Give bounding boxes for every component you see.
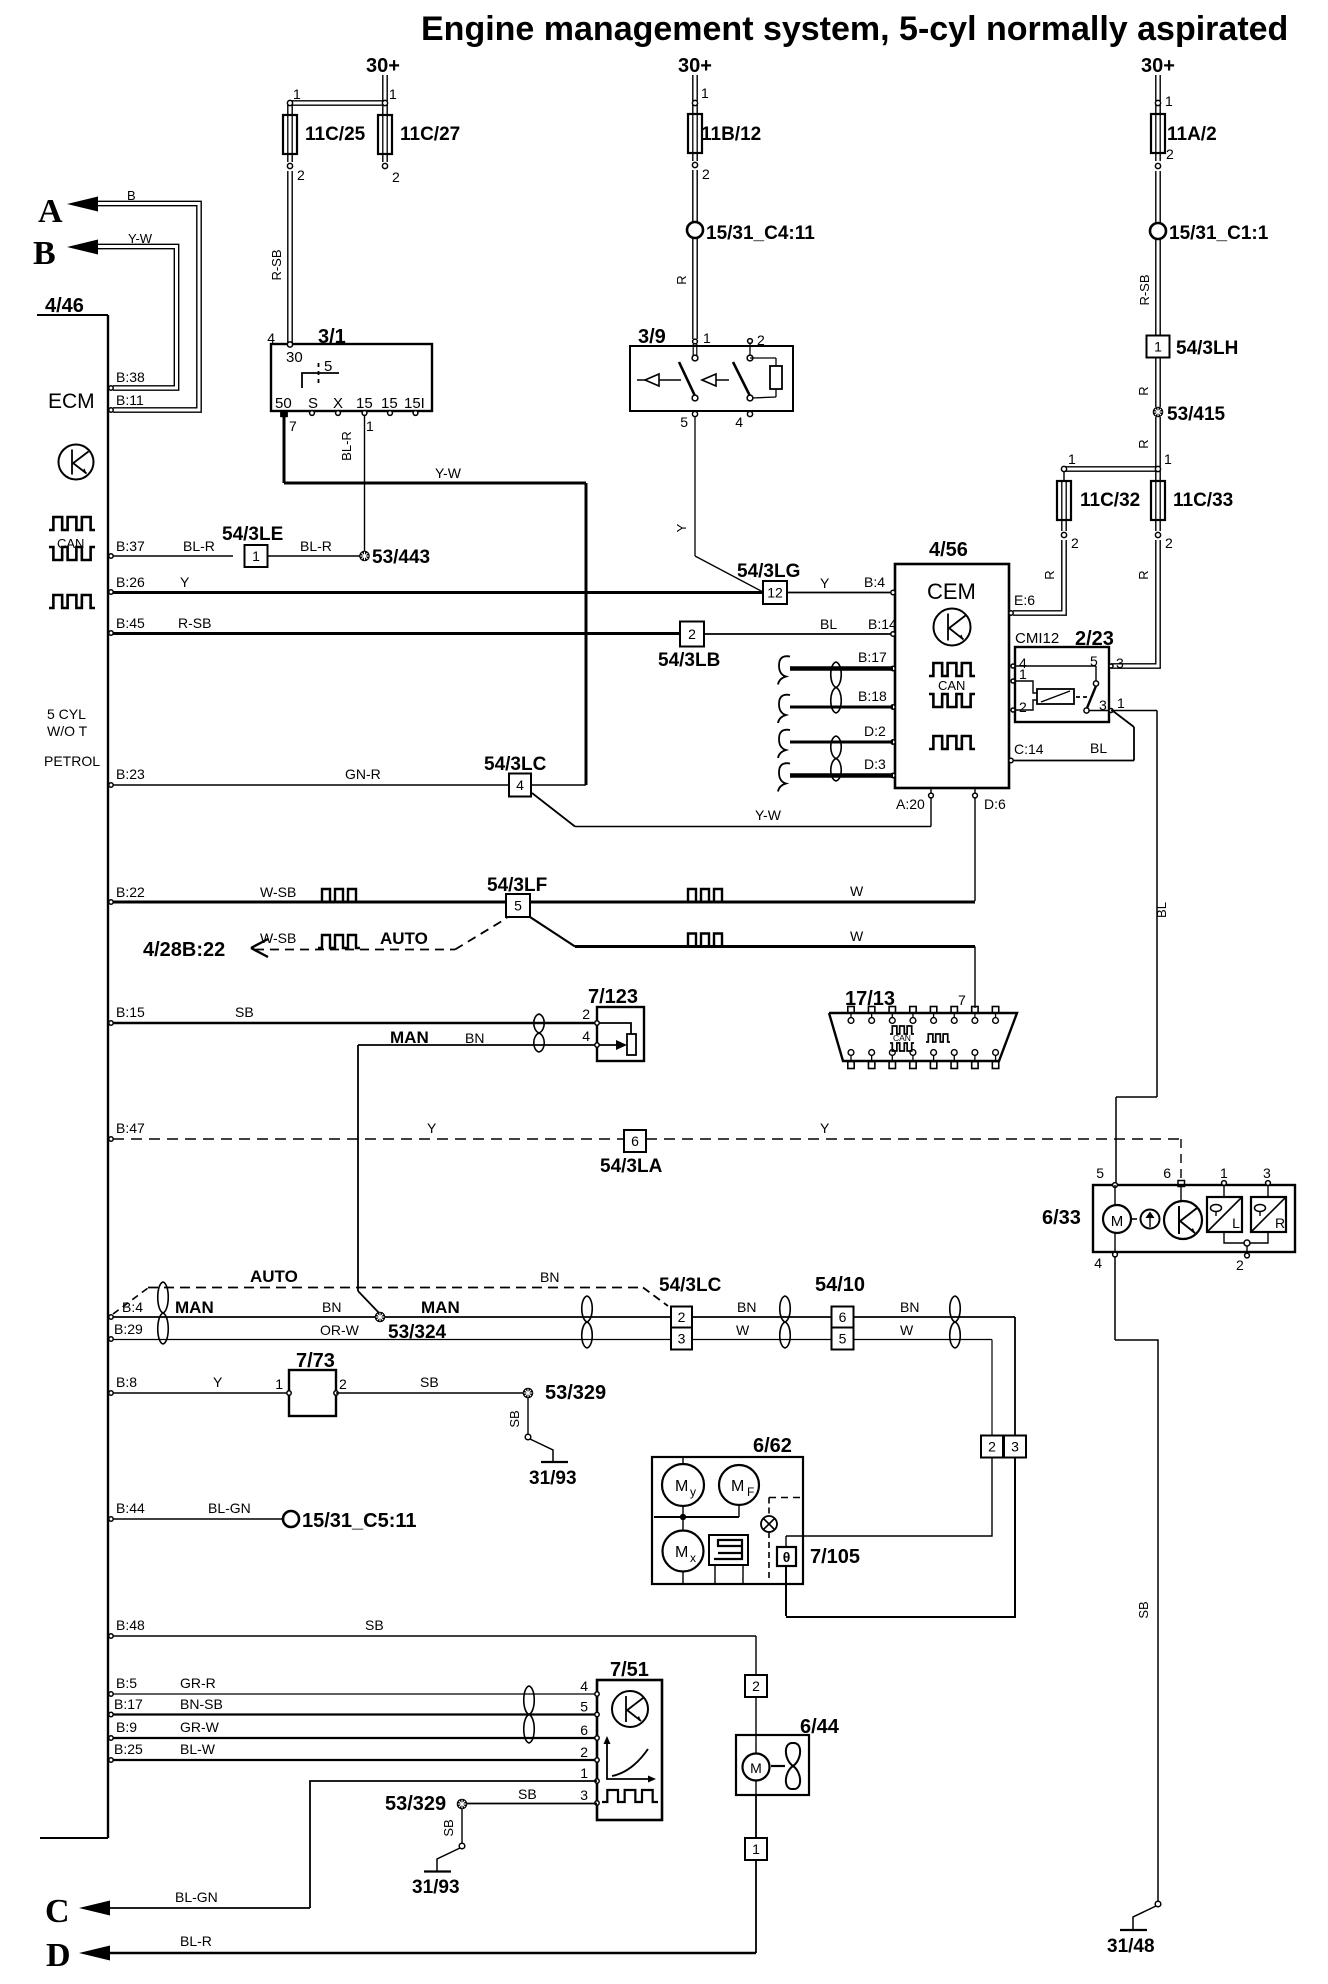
node 1 of 11C/32 — [1061, 466, 1066, 471]
svg-text:1: 1 — [389, 86, 397, 102]
svg-text:2: 2 — [678, 1309, 686, 1325]
wire W from 54/3LC to 54/10 — [692, 1339, 831, 1341]
wire BN MAN from 7/123 pin 4 — [358, 1044, 597, 1046]
svg-text:5: 5 — [1096, 1165, 1104, 1181]
svg-text:2: 2 — [1166, 146, 1174, 162]
main relay 3/9 internal contacts — [692, 355, 698, 361]
svg-text:12: 12 — [767, 585, 783, 601]
ground 31/93 (lower) — [459, 1843, 465, 1849]
twisted pair loop B:17/B:18 — [831, 662, 842, 713]
svg-text:CMI12: CMI12 — [1015, 630, 1059, 647]
svg-text:Y: Y — [427, 1120, 437, 1136]
wire 11B/12 to connector 15/31_C4:11 — [692, 152, 694, 161]
6/62 indicator lamp — [761, 1516, 777, 1532]
svg-text:2: 2 — [392, 169, 400, 185]
wire BL-R from fan connector to arrow D — [755, 1860, 757, 1953]
svg-text:B:26: B:26 — [116, 574, 145, 590]
svg-text:BL-R: BL-R — [300, 538, 332, 554]
svg-text:1: 1 — [752, 1841, 760, 1857]
svg-text:2: 2 — [757, 332, 765, 348]
fuse 11B/12 — [692, 105, 694, 114]
svg-text:W/O T: W/O T — [47, 723, 88, 739]
svg-text:y: y — [690, 1485, 696, 1499]
svg-text:Engine management system, 5-cy: Engine management system, 5-cyl normally… — [421, 10, 1288, 48]
svg-text:B:29: B:29 — [114, 1321, 143, 1337]
svg-text:GR-R: GR-R — [180, 1675, 216, 1691]
svg-text:E:6: E:6 — [1014, 592, 1035, 608]
ECM pin B:23 wire GN-R to connector 54/3LC — [109, 783, 113, 787]
fan connector pin 2 — [745, 1675, 767, 1697]
CEM combination instrument symbol — [934, 609, 971, 646]
svg-text:W: W — [850, 928, 864, 944]
svg-text:15: 15 — [356, 395, 373, 412]
thermostat 7/105 on 6/62 — [777, 1547, 796, 1566]
CEM left pins — [891, 590, 895, 594]
svg-text:7: 7 — [289, 418, 297, 434]
svg-text:SB: SB — [507, 1410, 522, 1427]
svg-text:53/329: 53/329 — [545, 1382, 606, 1404]
svg-text:54/3LC: 54/3LC — [484, 754, 547, 775]
svg-text:SB: SB — [518, 1786, 537, 1802]
ECM pin B:5 wire GR-R to 7/51 — [109, 1692, 113, 1696]
svg-text:1: 1 — [1019, 666, 1027, 682]
svg-text:2: 2 — [1236, 1257, 1244, 1273]
wire jumper node1 11C/25 to node1 11C/27 — [290, 100, 385, 102]
svg-text:11C/33: 11C/33 — [1173, 490, 1233, 511]
node 2 of 11C/27 — [382, 163, 387, 168]
wire W from 54/10 to blower connector — [854, 1339, 992, 1341]
svg-text:6/62: 6/62 — [753, 1435, 792, 1457]
svg-text:A:20: A:20 — [896, 796, 925, 812]
wire BL from relay 2/23 pin 1 down right side — [1111, 710, 1157, 712]
svg-text:53/443: 53/443 — [372, 547, 430, 568]
svg-text:D:6: D:6 — [984, 796, 1006, 812]
svg-text:R: R — [1136, 439, 1151, 448]
svg-text:BN: BN — [322, 1299, 341, 1315]
ECM pin B:8 wire Y to relay 7/73 — [109, 1391, 113, 1395]
svg-text:BN: BN — [737, 1299, 756, 1315]
svg-text:B:23: B:23 — [116, 766, 145, 782]
svg-text:BL-GN: BL-GN — [175, 1889, 218, 1905]
stub below 11C/27 — [382, 154, 384, 162]
svg-text:54/3LC: 54/3LC — [659, 1275, 722, 1296]
svg-text:3: 3 — [1011, 1439, 1019, 1455]
ignition switch 3/1 bottom pins — [282, 411, 287, 416]
connector 54/3LB pin 2 — [680, 622, 704, 647]
svg-text:B:38: B:38 — [116, 369, 145, 385]
node 1 of 11B/12 — [692, 100, 697, 105]
svg-text:1: 1 — [1164, 451, 1172, 467]
svg-text:2: 2 — [1165, 535, 1173, 551]
svg-text:7: 7 — [958, 992, 966, 1008]
wire 30+ down to node 1 of 11B/12 — [692, 75, 694, 101]
twisted pair loop between 54/3LC and 54/10 — [780, 1296, 791, 1348]
svg-text:W: W — [900, 1322, 914, 1338]
wire 30+ down to node 1 of 11A/2 — [1155, 75, 1157, 101]
dashed wire W-SB AUTO from arrow to 54/3LF — [255, 949, 455, 951]
svg-text:11B/12: 11B/12 — [701, 124, 761, 145]
svg-text:2: 2 — [582, 1006, 590, 1022]
svg-text:Y: Y — [674, 523, 689, 532]
svg-text:BL-R: BL-R — [339, 431, 354, 461]
svg-text:54/3LG: 54/3LG — [737, 561, 800, 582]
dashed AUTO branch from pin B:4 — [113, 1288, 148, 1314]
svg-text:M: M — [1111, 1213, 1124, 1230]
fuse 11A/2 — [1155, 105, 1157, 114]
svg-text:SB: SB — [1136, 1601, 1151, 1618]
svg-text:1: 1 — [252, 548, 260, 564]
blower connector pins 2 and 3 — [981, 1436, 1003, 1458]
svg-text:B:17: B:17 — [858, 649, 887, 665]
svg-text:MAN: MAN — [390, 1028, 429, 1047]
svg-text:D:3: D:3 — [864, 756, 886, 772]
wire SB from splice down to ground switch — [461, 1809, 463, 1843]
splice 53/324 — [358, 1291, 380, 1314]
wire BL-R from 54/3LE to splice 53/443 — [268, 555, 360, 557]
ECM combination instrument symbol — [59, 445, 94, 480]
wire 30+ feed down to node 1 — [382, 75, 384, 101]
svg-text:2: 2 — [988, 1439, 996, 1455]
fan connector pin 1 — [745, 1838, 767, 1860]
svg-text:L: L — [1232, 1215, 1240, 1231]
svg-text:Y-W: Y-W — [435, 465, 462, 481]
node 2 of 11B/12 — [692, 162, 697, 167]
wire SB from splice to ground switch — [527, 1398, 529, 1434]
svg-text:B:22: B:22 — [116, 884, 145, 900]
node 1 of 11A/2 — [1155, 100, 1160, 105]
svg-text:AUTO: AUTO — [250, 1267, 298, 1286]
svg-text:2: 2 — [702, 166, 710, 182]
svg-text:31/93: 31/93 — [529, 1468, 577, 1489]
svg-text:11C/25: 11C/25 — [305, 124, 366, 145]
svg-text:6: 6 — [631, 1133, 639, 1149]
svg-text:3: 3 — [1263, 1165, 1271, 1181]
wire R-SB from 11C/25 to relay 3/1 pin 4 — [287, 171, 289, 343]
svg-text:AUTO: AUTO — [380, 929, 428, 948]
svg-text:6: 6 — [1163, 1165, 1171, 1181]
relay 2/23 coil — [1015, 681, 1037, 693]
svg-text:31/48: 31/48 — [1107, 1936, 1155, 1957]
svg-text:B:18: B:18 — [858, 688, 887, 704]
ECM pin B:17 wire BN-SB to 7/51 — [109, 1712, 113, 1716]
splice 53/443 — [360, 551, 369, 560]
svg-text:BN: BN — [900, 1299, 919, 1315]
svg-text:30: 30 — [286, 349, 303, 366]
svg-text:R: R — [1136, 570, 1151, 579]
svg-text:R: R — [1136, 386, 1151, 395]
wire R from 11C/33 down to relay 2/23 pin 3 — [1155, 521, 1157, 531]
svg-text:R-SB: R-SB — [178, 615, 211, 631]
connector 54/3LA pin 6 — [624, 1130, 646, 1152]
twisted pair loop D:2/D:3 — [831, 736, 842, 781]
17/13 serial symbol — [926, 1034, 950, 1042]
svg-text:30+: 30+ — [1141, 55, 1175, 77]
wire R-SB from 15/31_C1:1 to connector 54/3LH — [1155, 239, 1157, 335]
wire Y-W diagonal from 54/3LC to CEM pin A:20 — [532, 793, 575, 827]
wire jumper to fuse 11C/32 node 1 — [1064, 466, 1158, 468]
svg-text:4: 4 — [1094, 1255, 1102, 1271]
svg-text:11C/32: 11C/32 — [1080, 490, 1140, 511]
ECM pin B:15 wire SB to shift lock solenoid 7/123 — [109, 1021, 113, 1025]
svg-text:D:2: D:2 — [864, 723, 886, 739]
svg-text:6: 6 — [839, 1309, 847, 1325]
svg-text:4: 4 — [267, 330, 275, 346]
svg-text:A: A — [38, 193, 63, 230]
wire Y from 54/3LG to CEM pin B:4 — [787, 592, 895, 594]
svg-text:53/415: 53/415 — [1167, 404, 1226, 425]
wire R from splice 53/415 down to fuse branch junction — [1155, 417, 1157, 467]
wire SB from splice to 7/51 pin 3 — [467, 1803, 597, 1805]
wire W from CEM pin D:6 down to diagnostic link — [974, 798, 976, 901]
wire from blower connector pin 2 to 6/62 lamp — [803, 1458, 992, 1536]
connector 15/31_C1:1 — [1150, 223, 1166, 239]
svg-text:5: 5 — [580, 1699, 588, 1715]
svg-text:2: 2 — [1071, 535, 1079, 551]
svg-text:2: 2 — [688, 626, 696, 642]
ECM pin B:45 wire R-SB to connector 54/3LB — [109, 631, 113, 635]
svg-text:5 CYL: 5 CYL — [47, 706, 86, 722]
wire BN from 54/10 to blower connector — [854, 1316, 1015, 1318]
svg-text:B:4: B:4 — [122, 1299, 143, 1315]
svg-text:3/9: 3/9 — [638, 326, 666, 348]
svg-text:Y: Y — [820, 575, 830, 591]
6/33 actuator common to pin 2 — [1224, 1232, 1244, 1243]
6/62 dashed actuation link — [769, 1497, 803, 1499]
svg-text:Y: Y — [820, 1120, 830, 1136]
svg-text:54/10: 54/10 — [815, 1274, 865, 1296]
17/13 CAN symbol — [890, 1026, 914, 1034]
svg-text:B:17: B:17 — [114, 1696, 143, 1712]
wire diagonal from 54/3LF to W lower — [530, 917, 575, 947]
svg-text:31/93: 31/93 — [412, 1877, 460, 1898]
wire Y from relay 3/9 pin 5 to connector 54/3LG — [694, 417, 696, 556]
fuse 11C/32 — [1063, 471, 1065, 481]
svg-text:1: 1 — [703, 330, 711, 346]
svg-text:B: B — [127, 188, 136, 203]
ECM pin B:4 wire BN MAN — [109, 1315, 113, 1319]
svg-text:PETROL: PETROL — [44, 753, 100, 769]
connector 15/31_C4:11 — [687, 222, 703, 238]
svg-text:M: M — [750, 1760, 762, 1776]
svg-text:1: 1 — [580, 1765, 588, 1781]
main relay 3/9 resistor — [750, 357, 776, 359]
svg-text:BL-R: BL-R — [180, 1933, 212, 1949]
svg-text:54/3LA: 54/3LA — [600, 1156, 663, 1177]
wire SB from 7/73 to splice 53/329 — [336, 1392, 524, 1394]
wire Y-W to arrow B from ECM pin B:38 — [98, 244, 179, 390]
svg-text:B:4: B:4 — [864, 574, 885, 590]
wire Y-W from ignition switch to connector 54/3LC — [284, 482, 586, 485]
svg-text:W-SB: W-SB — [260, 884, 296, 900]
svg-text:R-SB: R-SB — [1137, 274, 1152, 305]
wire R from 54/3LH to splice 53/415 — [1155, 358, 1157, 407]
wire BL from 54/3LB to CEM pin B:14 — [704, 633, 895, 635]
splice 53/415 — [1153, 407, 1162, 416]
node 2 of 11A/2 — [1155, 163, 1160, 168]
node 1 of 11C/27 — [382, 100, 387, 105]
svg-text:ECM: ECM — [48, 390, 95, 413]
svg-text:4: 4 — [582, 1028, 590, 1044]
svg-text:2: 2 — [339, 1376, 347, 1392]
wire BL-R from ignition switch pin 15 to splice 53/443 — [364, 416, 366, 551]
twisted pair loop on 7/123 wires — [534, 1014, 545, 1052]
svg-text:W-SB: W-SB — [260, 930, 296, 946]
svg-text:SB: SB — [441, 1819, 456, 1836]
svg-text:2: 2 — [297, 167, 305, 183]
6/62 motor My — [682, 1457, 684, 1464]
twisted pair loop before 54/3LC — [582, 1296, 593, 1348]
svg-text:30+: 30+ — [678, 55, 712, 77]
wire B to arrow A from ECM pin B:11 — [98, 201, 201, 412]
ground 31/48 — [1155, 1901, 1161, 1907]
svg-text:2: 2 — [580, 1744, 588, 1760]
svg-text:CEM: CEM — [927, 579, 976, 604]
svg-text:W: W — [736, 1322, 750, 1338]
svg-text:BL-GN: BL-GN — [208, 1500, 251, 1516]
signal symbol on wire B:22 — [318, 889, 360, 902]
svg-text:50: 50 — [275, 395, 292, 412]
fuse 11C/33 — [1151, 481, 1165, 520]
svg-text:1: 1 — [1068, 451, 1076, 467]
svg-text:B:9: B:9 — [116, 1719, 137, 1735]
node 2 of 11C/32 — [1061, 532, 1066, 537]
svg-text:Y-W: Y-W — [755, 807, 782, 823]
svg-text:5: 5 — [514, 898, 522, 914]
svg-text:4/56: 4/56 — [929, 539, 968, 561]
svg-text:R-SB: R-SB — [269, 249, 284, 280]
wire node1 to fuse 11C/25 — [287, 105, 289, 115]
node 2 of 11C/33 — [1155, 532, 1160, 537]
svg-text:4: 4 — [735, 414, 743, 430]
svg-text:SB: SB — [365, 1617, 384, 1633]
wire BL-GN to arrow C — [108, 1907, 310, 1909]
svg-text:M: M — [675, 1478, 688, 1495]
svg-text:1: 1 — [293, 86, 301, 102]
svg-text:53/329: 53/329 — [385, 1793, 446, 1815]
svg-text:7/105: 7/105 — [810, 1546, 860, 1568]
wire node1 to fuse 11C/27 — [382, 105, 384, 115]
CEM CAN bus symbol — [929, 663, 975, 676]
7/51 output signal symbol — [602, 1790, 658, 1802]
svg-text:3: 3 — [1116, 655, 1124, 671]
6/33 blower motor symbol — [1114, 1185, 1116, 1205]
6/33 right actuator R — [1267, 1185, 1269, 1197]
fuse 11C/25 — [283, 115, 297, 154]
7/51 characteristic curve symbol — [607, 1740, 652, 1779]
svg-text:x: x — [690, 1551, 696, 1565]
wire fuse 11C/25 down — [287, 154, 289, 162]
7/51 combination instrument symbol — [612, 1691, 648, 1727]
main relay 3/9 pin 4 — [747, 411, 752, 416]
svg-text:3: 3 — [580, 1787, 588, 1803]
splice 53/329 (upper) — [523, 1388, 532, 1397]
svg-text:6: 6 — [580, 1722, 588, 1738]
wire W from 54/3LF to data link connector 17/13 pin 7 — [575, 945, 975, 948]
svg-text:1: 1 — [1117, 695, 1125, 711]
ECM pin B:22 wire W-SB to connector 54/3LF — [109, 900, 113, 904]
twisted loop on 7/51 wires — [524, 1686, 535, 1743]
wire fan motor to connector pin 1 — [755, 1795, 757, 1838]
ECM pin B:29 wire OR-W — [109, 1337, 113, 1341]
svg-text:F: F — [747, 1485, 754, 1499]
svg-text:1: 1 — [701, 85, 709, 101]
svg-text:6/33: 6/33 — [1042, 1207, 1081, 1229]
wire from ignition switch pin 50/7 down — [283, 416, 286, 483]
svg-text:4/28B:22: 4/28B:22 — [143, 939, 225, 961]
svg-text:X: X — [333, 395, 343, 412]
wire BN from 54/3LC to 54/10 — [692, 1316, 831, 1318]
ECM pin B:25 wire BL-W to 7/51 — [109, 1758, 113, 1762]
svg-text:GN-R: GN-R — [345, 766, 381, 782]
6/62 motor MF — [719, 1465, 759, 1505]
svg-text:OR-W: OR-W — [320, 1322, 360, 1338]
node 2 of 11C/25 — [287, 163, 292, 168]
svg-text:MAN: MAN — [175, 1298, 214, 1317]
wire R from 11C/32 down to CEM pin E:6 — [1061, 521, 1063, 531]
svg-text:1: 1 — [1154, 339, 1162, 355]
main relay 3/9 pin 5 — [692, 411, 697, 416]
ECM pin B:11 — [109, 408, 113, 412]
svg-text:15: 15 — [381, 395, 398, 412]
ECM CAN bus symbol — [49, 517, 95, 530]
main relay 3/9 actuation arrows — [637, 379, 645, 381]
twisted pair loop after 54/10 — [950, 1296, 961, 1348]
svg-text:2: 2 — [1019, 699, 1027, 715]
svg-text:B:15: B:15 — [116, 1004, 145, 1020]
svg-text:15I: 15I — [404, 395, 425, 412]
svg-text:1: 1 — [366, 418, 374, 434]
svg-text:Y: Y — [180, 574, 190, 590]
6/62 blower resistor pack — [709, 1535, 748, 1565]
signal symbol on wire W upper — [684, 889, 726, 902]
svg-text:S: S — [308, 395, 318, 412]
svg-text:1: 1 — [275, 1376, 283, 1392]
svg-text:B:44: B:44 — [116, 1500, 145, 1516]
svg-text:Y-W: Y-W — [128, 231, 153, 246]
svg-text:11A/2: 11A/2 — [1167, 124, 1217, 145]
ECM pin B:38 — [109, 386, 113, 390]
svg-text:B:47: B:47 — [116, 1120, 145, 1136]
svg-text:1: 1 — [1220, 1165, 1228, 1181]
wire 11A/2 to connector 15/31_C1:1 — [1155, 152, 1157, 161]
6/62 internal junction — [654, 1516, 739, 1518]
svg-text:B:45: B:45 — [116, 615, 145, 631]
svg-text:15/31_C1:1: 15/31_C1:1 — [1169, 223, 1269, 244]
6/33 clutch symbol — [1132, 1218, 1137, 1220]
svg-text:B:5: B:5 — [116, 1675, 137, 1691]
svg-text:7/51: 7/51 — [610, 1659, 649, 1681]
svg-text:BL: BL — [820, 616, 837, 632]
svg-text:54/3LF: 54/3LF — [487, 875, 547, 896]
6/33 left actuator L — [1223, 1185, 1225, 1197]
twisted pair loop at ECM B:4/B:29 — [158, 1282, 169, 1344]
relay 2/23 internal contact — [1015, 665, 1096, 667]
svg-text:BL-W: BL-W — [180, 1741, 216, 1757]
ECM pin B:47 dashed wire Y to connector 54/3LA — [109, 1137, 113, 1141]
svg-text:2: 2 — [752, 1678, 760, 1694]
wire BL-R to arrow D — [108, 1952, 756, 1954]
svg-text:M: M — [731, 1478, 744, 1495]
svg-text:54/3LB: 54/3LB — [658, 650, 720, 671]
svg-text:D: D — [46, 1937, 71, 1974]
svg-text:MAN: MAN — [421, 1298, 460, 1317]
wire fan connector to fan motor 6/44 — [755, 1697, 757, 1735]
6/33 transistor symbol — [1180, 1185, 1182, 1201]
connector 54/3LH pin 1 — [1147, 336, 1170, 358]
svg-text:B:25: B:25 — [114, 1741, 143, 1757]
svg-text:15/31_C4:11: 15/31_C4:11 — [706, 223, 815, 244]
svg-text:3: 3 — [678, 1331, 686, 1347]
